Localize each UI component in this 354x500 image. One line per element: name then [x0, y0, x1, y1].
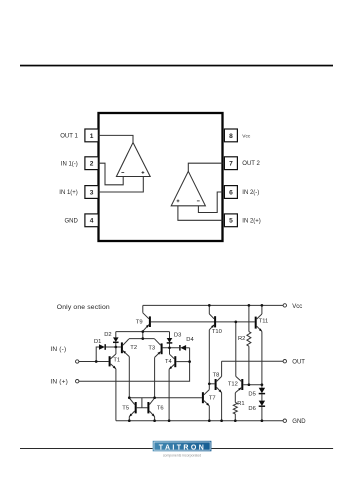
footer rule right [211, 448, 333, 449]
svg-text:T12: T12 [228, 381, 238, 387]
wire T10 emitter down to T8 base node / T7 collector [208, 330, 210, 390]
svg-text:TAITRON: TAITRON [159, 444, 206, 451]
svg-text:T5: T5 [122, 405, 129, 411]
svg-text:T11: T11 [259, 319, 269, 325]
svg-text:IN (-): IN (-) [50, 346, 66, 353]
IN(+) input terminal [50, 379, 79, 386]
wire T9/T10/T11 base bus [151, 321, 255, 323]
GND terminal [283, 419, 306, 425]
top horizontal rule [20, 65, 333, 67]
svg-text:OUT 1: OUT 1 [60, 134, 78, 140]
wire T12 base to R2 bottom and D5 anode [243, 384, 262, 386]
node GND/R1 [234, 419, 237, 422]
transistor T6 [147, 398, 163, 417]
pin 1 box [85, 129, 98, 142]
node T9 emitter [141, 330, 144, 333]
node Vcc/R2 top [248, 304, 251, 307]
svg-text:D4: D4 [186, 337, 194, 343]
wire T2-T3 collector bridge [129, 338, 155, 340]
transistor T11 [255, 314, 269, 331]
wire T11 collector to Vcc rail [261, 305, 263, 314]
svg-text:Vcc: Vcc [242, 133, 251, 139]
wire T8 base stem [209, 383, 214, 385]
wire IN(-) to T1 base [79, 361, 109, 363]
Vcc terminal [283, 304, 302, 310]
wire T8 collector up to OUT line [221, 361, 223, 376]
svg-text:1: 1 [90, 133, 94, 140]
pin 4 box [85, 214, 98, 227]
node collector bridge [141, 337, 144, 340]
node GND/D6 [261, 419, 264, 422]
svg-text:T6: T6 [157, 405, 164, 411]
wire T9 emitter node down to diff-pair collector bridge [142, 332, 144, 339]
wire T8 emitter to GND rail [221, 393, 223, 421]
svg-text:3: 3 [90, 189, 94, 196]
GND rail (bottom) [116, 420, 283, 422]
svg-text:D2: D2 [104, 332, 111, 338]
svg-text:OUT 2: OUT 2 [242, 161, 260, 167]
node GND/T5 emitter [128, 419, 131, 422]
svg-text:T8: T8 [213, 373, 220, 379]
svg-text:Vcc: Vcc [292, 304, 302, 310]
svg-text:7: 7 [229, 161, 233, 168]
svg-text:T9: T9 [136, 320, 143, 326]
op-amp A triangle [116, 143, 150, 177]
svg-text:IN 2(-): IN 2(-) [242, 190, 259, 196]
node D5 anode [261, 383, 264, 386]
diode D1 [94, 339, 116, 362]
svg-text:5: 5 [229, 218, 233, 225]
svg-text:R1: R1 [237, 401, 244, 407]
transistor T1 [109, 354, 121, 369]
svg-text:D1: D1 [94, 339, 101, 345]
node IN(-)/D1 [95, 360, 98, 363]
svg-text:T7: T7 [209, 395, 216, 401]
wire T5 emitter to GND rail [128, 417, 130, 421]
Vcc rail (top) [143, 304, 283, 306]
wire T3 emitter down to T6 collector node [154, 357, 156, 397]
svg-text:GND: GND [292, 419, 306, 425]
transistor T10 [209, 314, 222, 335]
wire T10 collector to Vcc rail [208, 305, 210, 314]
footer rule left [20, 448, 153, 449]
node R2/T12 base [248, 383, 251, 386]
svg-text:8: 8 [229, 133, 233, 140]
diode D6 [248, 401, 265, 421]
svg-text:OUT: OUT [292, 360, 305, 366]
node GND/T6 emitter [153, 419, 156, 422]
svg-text:T3: T3 [148, 346, 155, 352]
transistor T7 [202, 390, 216, 406]
diode D3 [167, 332, 182, 348]
wire T1 emitter down to GND rail [115, 369, 117, 421]
wire T4 base stem [176, 361, 189, 363]
wire T4 emitter down to GND rail [168, 369, 170, 421]
svg-text:R2: R2 [238, 336, 245, 342]
svg-text:components incorporated: components incorporated [163, 453, 201, 457]
wire T5/T6 base link and stub [137, 398, 148, 408]
wire IN(+) run to D4/T4 node [79, 348, 190, 381]
node T6 collector [153, 396, 156, 399]
resistor R1 [233, 393, 244, 421]
node Vcc/T11 collector [261, 304, 264, 307]
op-amp B triangle [171, 171, 205, 206]
transistor T9 [136, 313, 151, 331]
wire pin2 to op-amp A inverting input [99, 163, 124, 185]
svg-text:T4: T4 [165, 359, 173, 365]
resistor R2 [238, 305, 251, 384]
wire pin1 to op-amp A output [99, 135, 134, 142]
wire T9 collector to Vcc rail [142, 305, 144, 312]
OUT wire [222, 360, 284, 362]
wire T11 emitter down to D5 anode [261, 331, 263, 387]
pin 5 box [224, 214, 237, 227]
node T4 base [188, 360, 191, 363]
svg-text:2: 2 [90, 161, 94, 168]
svg-text:T1: T1 [113, 357, 120, 363]
wire T2 emitter down to T5 collector node [128, 357, 130, 398]
node GND/T4 emitter [168, 419, 171, 422]
wire T6 emitter to GND rail [154, 417, 156, 421]
wire T7 emitter to GND rail [208, 406, 210, 421]
OUT terminal [283, 360, 305, 366]
wire T1 collector to T2 base node [115, 347, 117, 354]
diode D2 [104, 332, 118, 347]
node T3 base [168, 346, 171, 349]
diode D5 [248, 388, 265, 401]
wire T12 collector up to base bus [235, 322, 237, 377]
transistor T12 [228, 376, 243, 392]
pin 7 box [224, 157, 237, 170]
svg-text:Only one section: Only one section [57, 304, 110, 311]
svg-text:6: 6 [229, 189, 233, 196]
pin 8 box [224, 129, 237, 142]
node base bus/T12 collector [234, 321, 237, 324]
transistor T5 [122, 398, 136, 417]
TAITRON logo [153, 441, 212, 458]
wire pin5 to op-amp B non-inverting input [178, 206, 223, 221]
node T8 base [208, 382, 211, 385]
wire D2-D3 top rail [116, 331, 170, 333]
wire T2 base stem [116, 346, 121, 348]
wire T3 base stem to D4 [163, 347, 180, 349]
node T5 collector [128, 396, 131, 399]
transistor T3 [148, 339, 162, 358]
node GND/T7 emitter [208, 419, 211, 422]
svg-text:T10: T10 [212, 329, 222, 335]
svg-text:IN (+): IN (+) [50, 379, 68, 386]
wire pin3 to op-amp A non-inverting input [99, 177, 144, 193]
svg-text:IN 1(-): IN 1(-) [61, 161, 78, 167]
IC package body (DIP-8 outline) [99, 113, 223, 241]
pin 2 box [85, 157, 98, 170]
wire pin6 to op-amp B inverting input [198, 192, 222, 213]
svg-text:D5: D5 [248, 391, 255, 397]
svg-text:IN 2(+): IN 2(+) [242, 218, 261, 224]
transistor T8 [213, 373, 222, 393]
svg-text:D3: D3 [174, 332, 181, 338]
wire T5/T6 collector row to T7 base [129, 397, 202, 399]
svg-text:T2: T2 [130, 345, 137, 351]
svg-text:4: 4 [90, 218, 94, 225]
node GND/T8 emitter [220, 419, 223, 422]
node T2 base [114, 346, 117, 349]
transistor T4 [165, 354, 176, 369]
transistor T2 [121, 339, 137, 357]
svg-text:D6: D6 [248, 406, 255, 412]
pin 6 box [224, 186, 237, 199]
svg-text:GND: GND [64, 219, 78, 225]
wire pin7 to op-amp B output [188, 163, 222, 171]
IN(-) input terminal [50, 346, 79, 363]
diode D4 [180, 337, 195, 351]
svg-text:IN 1(+): IN 1(+) [59, 190, 78, 196]
pin 3 box [85, 186, 98, 199]
wire T4 collector to T3 base node [169, 348, 171, 354]
node Vcc/T10 collector [208, 304, 211, 307]
